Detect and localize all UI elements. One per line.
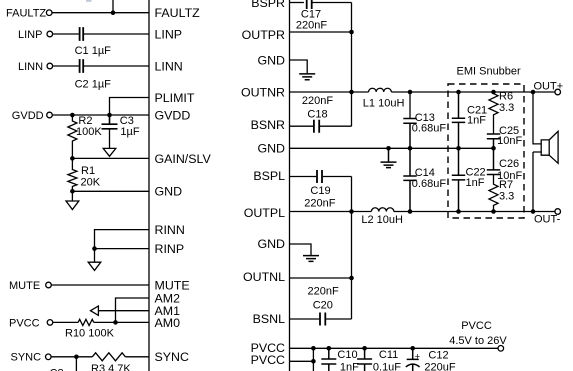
svg-text:R7: R7 — [499, 179, 513, 191]
capacitor C25 — [487, 134, 500, 148]
wire OUTNR pin to L1 — [290, 91, 369, 93]
wire SYNC terminal to R3 — [51, 356, 92, 358]
node SYNC junction — [74, 355, 79, 360]
capacitor C14 — [403, 148, 416, 211]
svg-text:OUTNR: OUTNR — [241, 85, 285, 99]
svg-text:MUTE: MUTE — [155, 278, 190, 292]
wire C18 to rail A — [320, 125, 352, 127]
svg-text:GAIN/SLV: GAIN/SLV — [155, 152, 212, 166]
svg-text:R3 4.7K: R3 4.7K — [91, 363, 131, 371]
inductor L2 — [371, 208, 393, 212]
svg-text:R6: R6 — [499, 90, 513, 102]
svg-text:FAULTZ: FAULTZ — [155, 6, 201, 20]
svg-text:+: + — [415, 352, 420, 362]
wire rail B (OUTPL/OUTNL parallel rail) — [351, 177, 353, 320]
node OUT- terminal — [555, 209, 561, 215]
node OUT+ at speaker tap — [531, 90, 536, 95]
resistor R2 — [68, 115, 77, 158]
arrow connector on AM1 — [91, 306, 99, 315]
wire SYNC node down to C8 (off page) — [75, 357, 77, 371]
wire OUTPR pin to rail A — [290, 31, 352, 33]
resistor R1 — [68, 158, 77, 191]
svg-text:0.1uF: 0.1uF — [373, 361, 401, 371]
node FAULTZ junction — [111, 10, 116, 15]
svg-text:BSPL: BSPL — [253, 169, 285, 183]
svg-text:FAULTZ: FAULTZ — [6, 8, 46, 20]
node PVCC at C10 — [327, 346, 332, 351]
ground (triangle) below C3 — [103, 129, 116, 156]
ground (3-bar) right 3 — [303, 256, 319, 262]
svg-text:4.5V to 26V: 4.5V to 26V — [449, 335, 507, 347]
node GND junction at R1 — [70, 189, 75, 194]
wire PVCC terminal to R10 — [53, 321, 78, 323]
ground (triangle) below R1 — [66, 191, 79, 209]
wire RINP pin to junction — [95, 248, 150, 250]
wire AM1 arrow to pin — [98, 310, 149, 312]
svg-text:SYNC: SYNC — [11, 352, 42, 364]
svg-text:L1 10uH: L1 10uH — [363, 97, 405, 109]
capacitor C2 — [80, 59, 84, 73]
IC U1 box right edge — [289, 0, 291, 371]
wire pull-up stub from top edge to FAULTZ node — [112, 0, 114, 13]
svg-text:20K: 20K — [81, 177, 101, 189]
svg-text:BSNL: BSNL — [253, 312, 285, 326]
wire LINN terminal to C2 — [53, 65, 79, 67]
svg-text:R1: R1 — [81, 165, 95, 177]
capacitor C3 — [102, 115, 118, 129]
svg-text:C1 1µF: C1 1µF — [75, 45, 112, 57]
node OUT- at speaker tap — [531, 209, 536, 214]
ground (triangle) below RINP — [88, 249, 101, 271]
svg-text:R10 100K: R10 100K — [65, 328, 115, 340]
wire C13/C14 rail top — [409, 92, 411, 118]
node OUT+ at C21 — [456, 90, 461, 95]
node GND bus at ground symbol — [386, 146, 391, 151]
node OUTNL-rail junction — [349, 276, 354, 281]
svg-text:PVCC: PVCC — [461, 320, 492, 332]
svg-text:C19: C19 — [310, 185, 330, 197]
wire C17 to rail A — [313, 2, 352, 4]
wire PVCC pin 1 to supply terminal — [290, 347, 499, 349]
svg-text:OUTPR: OUTPR — [242, 28, 285, 42]
wire AM2 pin to AM0 node — [116, 298, 150, 322]
wire C1 to LINP pin — [84, 33, 149, 35]
resistor R10 — [78, 319, 94, 325]
svg-text:GVDD: GVDD — [155, 108, 191, 122]
wire speaker positive tap — [533, 92, 541, 144]
wire OUTPL pin to rail B — [290, 211, 372, 213]
svg-text:EMI Snubber: EMI Snubber — [457, 66, 522, 78]
wire speaker negative tap — [533, 152, 541, 212]
svg-text:3.3: 3.3 — [499, 191, 514, 203]
wire GND node to GND pin — [72, 190, 149, 192]
node RINP junction — [92, 246, 97, 251]
node OUTPR-rail junction — [349, 30, 354, 35]
node OUT+ at C13 rail — [408, 90, 413, 95]
svg-text:1nF: 1nF — [466, 177, 485, 189]
svg-text:RINP: RINP — [155, 242, 185, 256]
node GND bus at C25/C26 — [491, 146, 496, 151]
wire L2 to OUT- terminal — [394, 211, 555, 213]
svg-text:GND: GND — [257, 142, 285, 156]
svg-text:PVCC: PVCC — [251, 353, 285, 367]
resistor R6 — [489, 92, 498, 134]
wire C2 to LINN pin — [84, 65, 149, 67]
wire GVDD terminal to GVDD pin — [52, 114, 149, 116]
wire C20 to rail B — [326, 318, 351, 320]
wire GND pin (right,2) bus to snubber — [290, 147, 494, 149]
svg-text:OUT+: OUT+ — [534, 81, 564, 93]
svg-text:OUT-: OUT- — [534, 213, 561, 225]
wire OUTNL pin to rail B — [290, 277, 352, 279]
svg-text:10nF: 10nF — [497, 135, 522, 147]
capacitor C26 — [487, 148, 500, 174]
capacitor C10 — [321, 348, 336, 371]
svg-text:GND: GND — [257, 53, 285, 67]
svg-text:AM0: AM0 — [155, 316, 181, 330]
wire BSNR pin to C18 — [290, 125, 314, 127]
svg-text:C2 1µF: C2 1µF — [75, 78, 112, 90]
node OUT+ terminal — [555, 89, 561, 95]
node PVCC supply terminal — [498, 346, 504, 352]
speaker — [541, 131, 558, 163]
svg-text:C11: C11 — [379, 349, 398, 361]
IC U1 box left edge — [148, 0, 150, 371]
node PVCC rail junction 1 — [311, 346, 316, 351]
svg-text:C3: C3 — [120, 115, 134, 127]
svg-text:C8: C8 — [50, 367, 64, 371]
svg-text:R2: R2 — [78, 115, 92, 127]
capacitor C17 — [307, 0, 312, 9]
svg-text:PVCC: PVCC — [9, 317, 40, 329]
svg-text:1nF: 1nF — [340, 361, 359, 371]
wire L1 to OUT+ terminal — [391, 91, 555, 93]
node GAIN/SLV junction — [70, 156, 75, 161]
svg-text:100K: 100K — [76, 126, 102, 138]
node MUTE terminal — [46, 282, 52, 288]
wire GVDD node up to PLIMIT pin — [110, 98, 150, 116]
wire FAULTZ terminal to pin — [52, 12, 149, 14]
svg-text:0.68uF: 0.68uF — [412, 178, 447, 190]
wire R10 to AM0 pin — [94, 321, 149, 323]
svg-text:OUTPL: OUTPL — [244, 206, 285, 220]
svg-text:220nF: 220nF — [302, 95, 333, 107]
node GVDD terminal — [47, 112, 53, 118]
svg-text:C20: C20 — [313, 300, 333, 312]
node GVDD junction at C3 — [107, 113, 112, 118]
svg-text:220nF: 220nF — [296, 19, 327, 31]
wire BSPL pin to C19 — [290, 176, 317, 178]
svg-text:1µF: 1µF — [120, 126, 139, 138]
node PVCC terminal (R10) — [47, 320, 53, 326]
svg-text:C10: C10 — [337, 349, 357, 361]
node PVCC rail junction 2 — [311, 359, 316, 364]
wire GND pin (right,1) to ground — [290, 60, 308, 73]
svg-text:GND: GND — [155, 185, 183, 199]
svg-text:LINP: LINP — [155, 27, 183, 41]
ground (3-bar) right 1 — [299, 74, 315, 80]
svg-text:PLIMIT: PLIMIT — [155, 91, 195, 105]
wire PVCC pin 2 to rail — [290, 360, 314, 362]
capacitor C13 — [403, 119, 416, 149]
resistor R7 — [489, 175, 498, 212]
capacitor C1 — [80, 27, 84, 41]
wire rail A (OUTPR/OUTNR parallel rail) — [351, 3, 353, 127]
node FAULTZ terminal — [46, 10, 52, 16]
svg-text:C12: C12 — [428, 350, 448, 362]
capacitor C19 — [317, 170, 322, 183]
node OUT- at C22 — [456, 209, 461, 214]
node SYNC terminal — [46, 354, 52, 360]
node OUTPL-rail junction — [349, 209, 354, 214]
svg-text:C18: C18 — [307, 108, 327, 120]
node GVDD junction at R2 — [70, 113, 75, 118]
svg-text:GVDD: GVDD — [12, 110, 44, 122]
svg-text:MUTE: MUTE — [9, 280, 40, 292]
wire BSNL pin to C20 — [290, 318, 320, 320]
svg-text:LINN: LINN — [155, 59, 183, 73]
inductor L1 — [369, 88, 392, 92]
ground (3-bar) on GND bus — [381, 148, 397, 167]
wire BSPR pin to C17 — [290, 2, 304, 4]
node OUTNR-rail junction — [349, 90, 354, 95]
EMI snubber dashed box — [448, 84, 524, 218]
node PVCC at C12 — [410, 346, 415, 351]
node GND bus at C13 rail — [408, 146, 413, 151]
wire GND pin (right,3) to ground — [290, 244, 312, 255]
node OUT- at C14 rail — [408, 209, 413, 214]
svg-text:OUTNL: OUTNL — [243, 270, 285, 284]
svg-text:LINN: LINN — [18, 61, 43, 73]
svg-text:3.3: 3.3 — [499, 102, 514, 114]
svg-text:GND: GND — [257, 237, 285, 251]
capacitor C12 (polarized) — [406, 348, 420, 371]
svg-text:BSNR: BSNR — [251, 118, 285, 132]
capacitor C21 with column wires — [452, 92, 465, 175]
node GND bus at C21/C22 — [456, 146, 461, 151]
wire MUTE terminal to pin — [51, 284, 149, 286]
svg-text:RINN: RINN — [155, 223, 185, 237]
node PVCC at C11 — [362, 346, 367, 351]
remnant of cut-off label at top — [86, 0, 92, 2]
wire R3 to SYNC pin — [125, 356, 149, 358]
capacitor C11 — [357, 348, 372, 371]
capacitor C18 — [314, 120, 319, 133]
resistor R3 — [92, 353, 125, 361]
svg-text:220nF: 220nF — [304, 197, 335, 209]
capacitor C20 — [320, 313, 325, 326]
svg-text:220uF: 220uF — [424, 361, 455, 371]
wire LINP terminal to C1 — [53, 33, 79, 35]
wire C19 to rail B — [323, 176, 352, 178]
node LINN terminal — [47, 63, 53, 69]
svg-text:BSPR: BSPR — [251, 0, 285, 10]
svg-text:1nF: 1nF — [467, 115, 486, 127]
capacitor C22 with column wire — [452, 175, 465, 211]
svg-text:SYNC: SYNC — [155, 350, 189, 364]
svg-text:C26: C26 — [499, 158, 519, 170]
svg-text:L2 10uH: L2 10uH — [361, 214, 403, 226]
wire RINN pin to junction column — [95, 230, 150, 249]
wire GAIN/SLV node to pin — [72, 157, 149, 159]
svg-text:LINP: LINP — [18, 29, 42, 41]
node OUT+ at R6 — [491, 90, 496, 95]
wire PVCC vertical rail — [312, 348, 314, 371]
node LINP terminal — [47, 31, 53, 37]
svg-text:220nF: 220nF — [307, 285, 338, 297]
node AM0 junction — [113, 320, 118, 325]
node OUT- at R7 — [491, 209, 496, 214]
svg-text:0.68uF: 0.68uF — [412, 123, 447, 135]
